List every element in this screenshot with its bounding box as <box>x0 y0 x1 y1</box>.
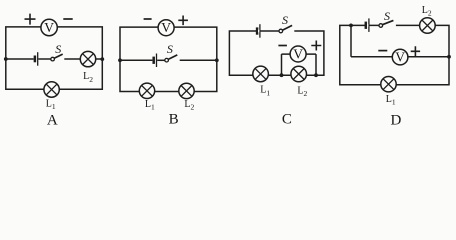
battery cell panel B <box>154 54 157 68</box>
svg-text:A: A <box>47 113 58 128</box>
voltmeter V panel A <box>41 19 57 35</box>
svg-text:S: S <box>167 42 173 56</box>
voltmeter V panel C with stubs <box>282 46 317 62</box>
polarity - panel A <box>63 18 72 20</box>
switch S panel D <box>379 20 396 27</box>
svg-text:L2: L2 <box>184 99 194 112</box>
lamp L2 panel A <box>80 51 95 66</box>
svg-text:D: D <box>391 113 402 128</box>
wire: panel A lamp-to-right <box>96 58 103 60</box>
svg-text:L1: L1 <box>386 94 396 107</box>
switch S panel B <box>165 55 178 62</box>
polarity + panel D <box>411 46 420 56</box>
lamp L2 panel C <box>291 66 307 82</box>
svg-text:L2: L2 <box>422 5 432 18</box>
junction dot panel D right <box>447 55 451 59</box>
svg-text:C: C <box>282 112 292 128</box>
wire: panel A battery-to-switch <box>38 58 50 60</box>
polarity + panel A <box>25 14 36 25</box>
svg-text:L1: L1 <box>260 85 270 98</box>
junction dot panel B left <box>118 58 122 62</box>
switch S panel C <box>279 25 294 32</box>
wire: panel B switch-to-right <box>180 59 217 61</box>
wire: panel D voltmeter branch vertical <box>350 25 352 56</box>
voltmeter V panel D <box>392 49 408 65</box>
svg-text:L2: L2 <box>297 85 307 98</box>
switch S panel A <box>51 54 63 61</box>
svg-text:S: S <box>384 9 390 23</box>
svg-text:L1: L1 <box>145 99 155 112</box>
junction dot panel A left <box>4 57 8 61</box>
wire: panel D voltmeter branch horizontal <box>351 56 449 58</box>
wire: panel D outer loop <box>340 25 449 84</box>
svg-text:S: S <box>282 13 288 27</box>
lamp L2 panel B <box>179 83 194 98</box>
lamp L1 panel D <box>381 77 396 92</box>
svg-text:V: V <box>44 20 54 35</box>
polarity - panel D <box>378 50 387 52</box>
wire: panel B battery-to-switch <box>157 59 165 61</box>
polarity + panel C <box>311 41 321 51</box>
svg-text:B: B <box>169 111 179 127</box>
lamp L2 panel D <box>420 18 436 34</box>
white gap for battery panel D <box>367 24 368 27</box>
wire: panel C outer loop <box>229 31 324 75</box>
wire: panel A switch-to-lamp <box>64 58 80 60</box>
svg-text:L1: L1 <box>46 98 56 111</box>
svg-text:V: V <box>293 47 303 62</box>
wire: panel A middle branch left segment <box>6 58 34 60</box>
svg-text:S: S <box>55 42 61 56</box>
battery cell panel A <box>35 52 38 65</box>
svg-text:V: V <box>161 20 171 35</box>
polarity + panel B <box>178 16 188 26</box>
lamp L1 panel C <box>253 66 269 82</box>
wire: panel A outer loop <box>6 27 103 89</box>
svg-text:V: V <box>395 50 405 65</box>
battery cell panel C <box>257 24 260 38</box>
wire: panel B outer loop <box>120 27 217 91</box>
polarity - panel B <box>144 18 152 20</box>
wire: panel B middle branch left segment <box>120 59 152 61</box>
polarity - panel C <box>278 45 287 47</box>
white gap for battery panel C <box>258 30 259 33</box>
junction dot panel D top tap <box>349 24 353 28</box>
voltmeter V panel B <box>158 20 174 36</box>
lamp L1 panel B <box>139 83 154 98</box>
junction dot panel C right tap <box>314 73 318 77</box>
lamp L1 panel A <box>44 82 59 97</box>
junction dot panel C left tap <box>280 73 284 77</box>
battery cell panel D <box>366 18 369 32</box>
wire: panel C voltmeter left vertical <box>281 54 283 75</box>
junction dot panel A right <box>100 57 104 61</box>
junction dot panel B right <box>215 58 219 62</box>
svg-text:L2: L2 <box>83 71 93 84</box>
wire: panel C voltmeter right vertical <box>315 54 317 75</box>
